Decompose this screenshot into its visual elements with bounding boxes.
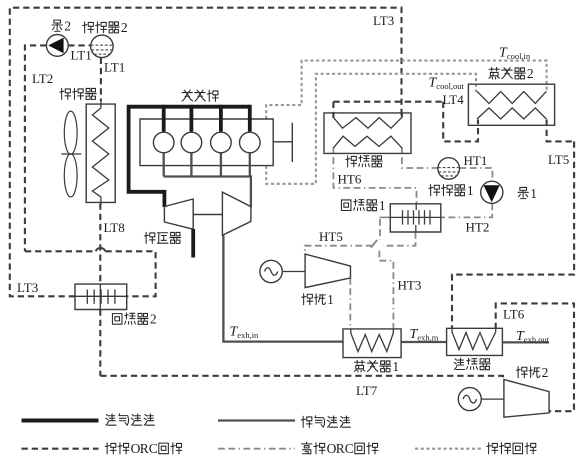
wire exhaust stub cylinder 3: [220, 153, 222, 177]
tank1 liquid level line 2: [438, 171, 459, 173]
svg-text:C: C: [149, 441, 158, 456]
svg-text:LT1: LT1: [104, 60, 125, 75]
superheater coil: [452, 329, 496, 350]
svg-text:HT5: HT5: [319, 229, 343, 244]
legend label 排气通道: [301, 416, 312, 427]
fan hub line: [61, 153, 81, 155]
generator G1 body: [260, 260, 282, 282]
label 回热器1: [341, 200, 351, 211]
svg-text:LT7: LT7: [356, 383, 378, 398]
wire LT2 horizontal toward regenerator2: [25, 250, 96, 252]
wire HT6 preheater bottom-left to regenerator1 top: [333, 147, 416, 204]
label 泵1: [518, 187, 528, 198]
svg-text:R: R: [336, 441, 345, 456]
svg-text:HT6: HT6: [338, 172, 362, 187]
condenser 冷凝器 body: [86, 104, 115, 202]
wire preheater top-left stub: [332, 102, 334, 118]
svg-text:C: C: [345, 441, 354, 456]
engine intake manifold (thick): [129, 107, 250, 207]
regenerator2 tick 1: [86, 290, 88, 304]
regenerator1 tube: [390, 216, 441, 218]
svg-text:LT4: LT4: [443, 92, 465, 107]
wire HT2 pump1 bottom to regenerator1 tube: [441, 204, 492, 218]
regenerator1 internal bottom stub: [415, 225, 417, 232]
regenerator1 tick 5: [424, 210, 426, 224]
fan blades: [64, 111, 77, 154]
wire exhaust tail after superheater: [502, 341, 549, 343]
regenerator2 tube: [75, 295, 127, 297]
generator G1 shaft: [282, 271, 305, 273]
label 冷凝器: [60, 88, 71, 99]
label 过热器: [454, 358, 464, 369]
evaporator1 coil: [351, 330, 394, 352]
turbocharger shaft: [193, 214, 222, 216]
wire LT preheater top header: [333, 101, 443, 103]
wire HT3 down from tube exit: [379, 219, 381, 240]
preheater lower coil: [333, 136, 402, 148]
label 涡轮1: [302, 294, 313, 305]
pump P2 (泵2) body: [46, 35, 68, 57]
regenerator2 internal bottom stub: [99, 296, 101, 309]
wire intake stub cylinder 4: [248, 105, 252, 132]
svg-text:HT3: HT3: [398, 278, 422, 293]
regenerator2 tick 5: [114, 290, 116, 304]
wire regenerator2 shell bottom down to LT7: [99, 310, 101, 376]
label 蒸发器1: [354, 360, 365, 372]
svg-text:1: 1: [467, 183, 474, 198]
legend cooling line sample: [415, 448, 482, 450]
wire LT7 horizontal to turbine2 inlet: [100, 376, 503, 380]
wire LT5 down right side to superheater top-left: [452, 141, 574, 329]
evaporator2 lower coil: [477, 108, 546, 119]
regenerator1 tick 2: [407, 210, 409, 224]
svg-text:1: 1: [530, 186, 537, 201]
label 增压器: [144, 232, 155, 243]
superheater 过热器 body: [447, 328, 503, 355]
tank2 liquid level line 1: [91, 44, 113, 46]
label 泵2: [52, 20, 62, 31]
legend label 进气通道: [106, 414, 116, 425]
wire HT5 to turbine1 inlet: [305, 246, 373, 255]
regenerator1 internal top stub: [415, 204, 417, 210]
wire exhaust evaporator1 to superheater: [401, 341, 447, 343]
wire intake stub cylinder 2: [189, 105, 193, 132]
svg-text:LT3: LT3: [17, 280, 38, 295]
wire exhaust stub cylinder 1: [163, 153, 165, 177]
wire LT1 tank2 down to condenser: [100, 58, 102, 101]
wire LT4 down and into evaporator2 bottom-left: [443, 102, 478, 142]
regenerator2 internal top stub: [99, 284, 101, 296]
svg-text:2: 2: [150, 312, 157, 327]
turbocharger turbine: [222, 192, 251, 235]
wire turbine1 outlet down to evaporator1 top-left: [349, 278, 351, 329]
svg-text:HT2: HT2: [466, 220, 490, 235]
wire compressor air inlet (thick): [191, 229, 195, 258]
svg-text:LT6: LT6: [503, 307, 525, 322]
turbine 涡轮2: [504, 380, 549, 418]
label 蒸发器2: [489, 67, 500, 79]
regenerator1 tick 6: [429, 210, 431, 224]
wire exhaust stub cylinder 2: [190, 153, 192, 177]
generator G2 sine: [463, 395, 477, 403]
svg-text:LT8: LT8: [104, 220, 125, 235]
wire LT3 regenerator2 tube left, up left side, across top, down to preheater: [10, 8, 402, 297]
wire LT2 pump2-outlet down left side: [25, 45, 47, 251]
tank1 liquid level line 3: [441, 175, 457, 177]
svg-text:R: R: [140, 441, 149, 456]
legend exhaust line sample: [218, 419, 295, 421]
pump P1 impeller triangle: [484, 185, 500, 202]
regenerator2 tick 3: [100, 290, 102, 304]
cylinder 3: [211, 132, 232, 153]
svg-text:HT1: HT1: [464, 153, 488, 168]
cylinder 2: [181, 132, 202, 153]
legend label 高温ORC回路: [302, 442, 312, 454]
label 储液罐1: [429, 185, 440, 196]
tank1 liquid level line 1: [438, 167, 460, 169]
regenerator1 tick 4: [418, 210, 420, 224]
wire LT6 superheater top-right to turbine2: [496, 303, 574, 411]
tank 储液罐1 body: [438, 158, 460, 180]
turbocharger compressor: [164, 199, 193, 229]
svg-text:LT3: LT3: [373, 13, 394, 28]
regenerator2 tick 2: [93, 290, 95, 304]
svg-text:1: 1: [379, 198, 386, 213]
cylinder 4: [240, 132, 261, 153]
regenerator1 tick 1: [402, 210, 404, 224]
wire LT2 jump arc over LT8: [96, 248, 106, 251]
wire HT1 preheater bottom-right to tank1: [402, 147, 438, 168]
label 发动机: [182, 90, 193, 101]
regenerator 回热器1 body: [390, 204, 441, 232]
pump P2 impeller triangle: [48, 38, 63, 54]
legend LT ORC line sample: [22, 448, 99, 450]
legend intake line sample: [22, 419, 99, 423]
cylinder 1: [153, 132, 174, 153]
label 预热器: [346, 156, 357, 167]
wire exhaust stub cylinder 4: [249, 153, 251, 177]
regenerator1 tick 3: [413, 210, 415, 224]
svg-text:2: 2: [542, 365, 549, 380]
legend HT ORC line sample: [218, 448, 295, 450]
tank2 liquid level line 2: [91, 49, 112, 51]
turbine 涡轮1: [305, 254, 350, 288]
wire LT2 corner into regenerator2 tube right end: [105, 251, 155, 296]
evaporator 蒸发器1 body: [343, 329, 401, 358]
svg-text:2: 2: [527, 66, 534, 81]
svg-text:LT1: LT1: [71, 48, 92, 63]
tank2 liquid level line 3: [94, 53, 110, 55]
svg-text:2: 2: [64, 19, 71, 34]
generator G2 shaft: [481, 398, 504, 400]
wire LT1 pump2 to tank2: [68, 44, 90, 46]
evaporator2 upper coil: [477, 91, 546, 103]
svg-text:LT2: LT2: [32, 71, 53, 86]
pump P1 (泵1) body: [481, 181, 503, 203]
wire coolant T_cool,in: engine top to evaporator2 top-right: [266, 61, 546, 119]
wire tank1 to pump1 top: [460, 168, 493, 181]
regenerator2 tick 4: [107, 290, 109, 304]
wire LT8 condenser bottom to regenerator2 shell top: [99, 204, 101, 285]
preheater 预热器 body: [324, 113, 411, 153]
svg-text:1: 1: [327, 292, 334, 307]
wire coolant T_cool,out: engine bottom to evaporator2 top-left: [266, 74, 476, 184]
wire HT3 diagonal jog over HT5: [371, 240, 377, 248]
regenerator 回热器2 body: [75, 284, 127, 309]
tank 储液罐2 body: [91, 35, 114, 58]
engine exhaust manifold: [164, 177, 251, 208]
preheater top-right inner stub: [401, 113, 403, 118]
wire intake stub cylinder 3: [219, 105, 223, 132]
wire intake stub cylinder 1: [162, 105, 166, 132]
svg-text:1: 1: [392, 359, 399, 374]
wire evaporator2 bottom-right out: [547, 120, 575, 142]
engine output shaft / dynamometer: [273, 141, 292, 143]
legend label 低温ORC回路: [105, 443, 116, 454]
wire HT3 down into evaporator1 top-right: [379, 251, 393, 330]
wire exhaust to evaporator1: [222, 340, 343, 342]
wire exhaust turbocharger-turbine outlet down: [222, 235, 224, 341]
legend label 冷却回路: [487, 443, 498, 454]
wire HT5 regenerator1 bottom stub leftward: [383, 232, 416, 246]
engine 发动机 block: [140, 119, 273, 166]
label 储液罐2: [83, 22, 94, 33]
evaporator 蒸发器2 body: [468, 84, 554, 125]
svg-text:LT5: LT5: [548, 152, 569, 167]
label 涡轮2: [516, 367, 527, 378]
wire HT3 regenerator1 tube-left exit: [380, 216, 392, 218]
generator G1 sine: [265, 268, 278, 276]
generator G2 body: [458, 388, 481, 411]
preheater upper coil: [333, 117, 402, 128]
label 回热器2: [112, 314, 122, 325]
condenser coil zigzag: [92, 101, 108, 205]
svg-text:2: 2: [121, 20, 128, 35]
